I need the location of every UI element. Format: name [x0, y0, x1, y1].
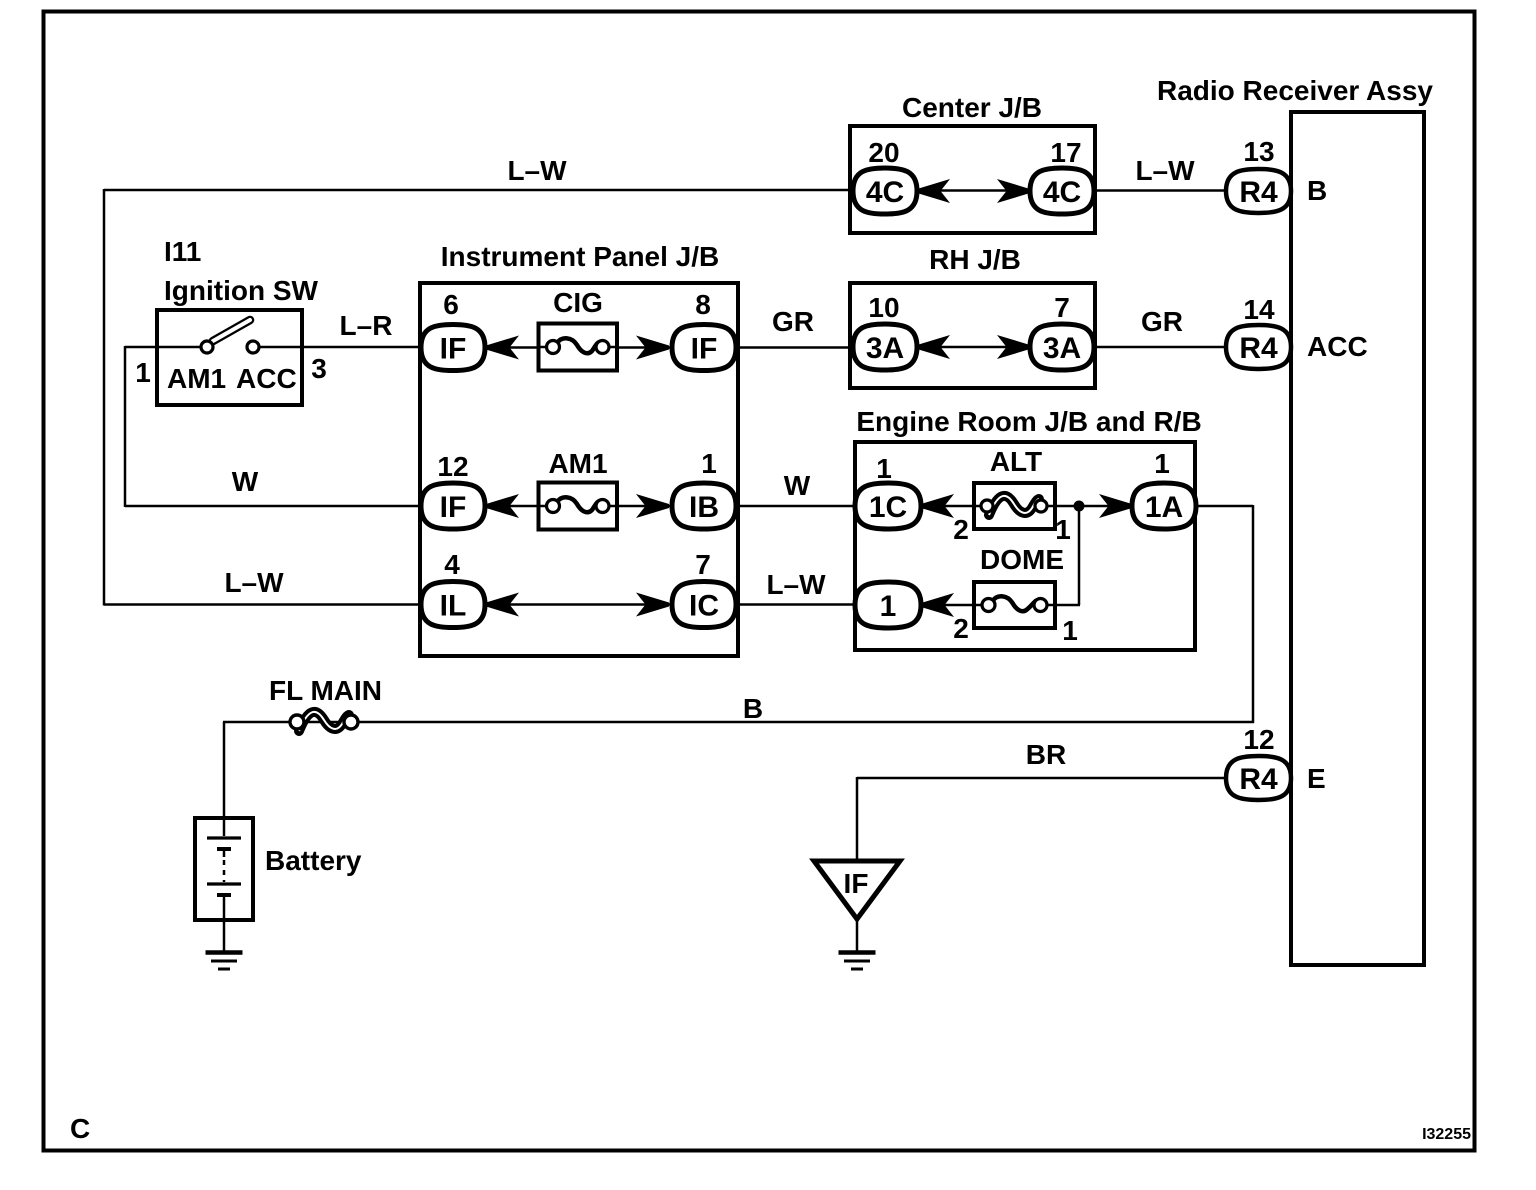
- svg-text:ACC: ACC: [1307, 331, 1368, 362]
- svg-text:R4: R4: [1239, 763, 1278, 796]
- svg-text:1: 1: [1062, 615, 1078, 646]
- svg-text:FL MAIN: FL MAIN: [269, 675, 382, 706]
- svg-text:AM1: AM1: [167, 363, 226, 394]
- svg-text:Radio Receiver Assy: Radio Receiver Assy: [1157, 75, 1433, 106]
- svg-text:BR: BR: [1026, 739, 1066, 770]
- svg-text:IB: IB: [689, 491, 719, 524]
- svg-text:3: 3: [311, 353, 327, 384]
- svg-text:CIG: CIG: [553, 287, 603, 318]
- svg-text:GR: GR: [772, 306, 814, 337]
- svg-text:Battery: Battery: [265, 845, 362, 876]
- svg-text:1: 1: [135, 357, 151, 388]
- svg-text:ALT: ALT: [990, 446, 1042, 477]
- svg-text:L–R: L–R: [340, 310, 393, 341]
- svg-text:8: 8: [695, 289, 711, 320]
- svg-text:L–W: L–W: [507, 155, 567, 186]
- svg-text:L–W: L–W: [224, 567, 284, 598]
- svg-text:1: 1: [876, 453, 892, 484]
- svg-text:IF: IF: [440, 491, 467, 524]
- svg-text:L–W: L–W: [1135, 155, 1195, 186]
- svg-text:IL: IL: [440, 589, 467, 622]
- svg-text:R4: R4: [1239, 176, 1278, 209]
- svg-text:GR: GR: [1141, 306, 1183, 337]
- svg-text:2: 2: [953, 514, 969, 545]
- svg-text:I11: I11: [164, 236, 201, 267]
- svg-text:IC: IC: [689, 589, 719, 622]
- svg-text:B: B: [1307, 175, 1327, 206]
- svg-text:B: B: [743, 693, 763, 724]
- svg-text:RH J/B: RH J/B: [929, 244, 1021, 275]
- svg-text:W: W: [232, 466, 259, 497]
- svg-text:IF: IF: [844, 868, 869, 899]
- svg-text:4C: 4C: [1043, 176, 1081, 209]
- svg-text:20: 20: [868, 137, 899, 168]
- svg-text:6: 6: [443, 289, 459, 320]
- svg-text:12: 12: [1243, 724, 1274, 755]
- svg-text:3A: 3A: [866, 332, 904, 365]
- svg-text:4: 4: [444, 549, 460, 580]
- svg-text:4C: 4C: [866, 176, 904, 209]
- svg-text:3A: 3A: [1043, 332, 1081, 365]
- svg-text:Engine Room J/B and R/B: Engine Room J/B and R/B: [856, 406, 1201, 437]
- svg-text:7: 7: [695, 549, 711, 580]
- svg-text:I32255: I32255: [1422, 1126, 1471, 1143]
- svg-text:DOME: DOME: [980, 544, 1064, 575]
- svg-text:1: 1: [1055, 514, 1071, 545]
- svg-text:Center J/B: Center J/B: [902, 92, 1042, 123]
- svg-text:IF: IF: [691, 332, 718, 365]
- svg-text:Instrument Panel J/B: Instrument Panel J/B: [441, 241, 720, 272]
- svg-text:C: C: [70, 1113, 90, 1144]
- svg-text:17: 17: [1050, 137, 1081, 168]
- svg-text:1: 1: [701, 448, 717, 479]
- svg-text:10: 10: [868, 292, 899, 323]
- svg-text:W: W: [784, 470, 811, 501]
- svg-text:1A: 1A: [1145, 491, 1183, 524]
- svg-text:1C: 1C: [869, 491, 907, 524]
- svg-text:1: 1: [880, 590, 897, 623]
- svg-text:ACC: ACC: [236, 363, 297, 394]
- svg-text:Ignition SW: Ignition SW: [164, 275, 319, 306]
- svg-text:7: 7: [1054, 292, 1070, 323]
- svg-text:L–W: L–W: [766, 569, 826, 600]
- svg-text:AM1: AM1: [548, 448, 607, 479]
- svg-text:R4: R4: [1239, 332, 1278, 365]
- svg-text:14: 14: [1243, 294, 1275, 325]
- svg-text:IF: IF: [440, 332, 467, 365]
- svg-text:12: 12: [437, 451, 468, 482]
- svg-text:E: E: [1307, 763, 1326, 794]
- svg-text:2: 2: [953, 613, 969, 644]
- svg-text:1: 1: [1154, 448, 1170, 479]
- svg-text:13: 13: [1243, 136, 1274, 167]
